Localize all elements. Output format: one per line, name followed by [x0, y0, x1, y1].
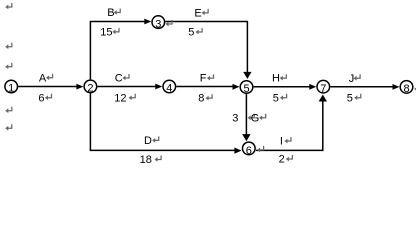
svg-text:2: 2: [279, 154, 285, 165]
wire J: node7 to node8: [330, 84, 399, 90]
svg-text:3: 3: [232, 112, 238, 124]
svg-text:6: 6: [38, 92, 44, 104]
label A: [39, 72, 53, 84]
value 5: [347, 92, 361, 104]
svg-text:F: F: [200, 73, 207, 85]
wire A: node1 to node2: [18, 84, 83, 90]
value 8: [198, 93, 212, 105]
value 6: [38, 92, 51, 104]
svg-text:I: I: [280, 135, 283, 147]
svg-text:2: 2: [87, 83, 93, 95]
node 3: [152, 16, 165, 30]
svg-text:8: 8: [403, 83, 409, 95]
label H: [272, 73, 286, 85]
label G: [251, 112, 266, 124]
wire B: node2 up and right to node3: [90, 19, 151, 80]
wire G: node5 down to node6: [242, 94, 250, 141]
label E: [194, 7, 208, 19]
value 2: [279, 154, 293, 166]
node 7: [317, 80, 330, 95]
wire I: node6 right then up to node7: [256, 95, 327, 151]
svg-text:3: 3: [155, 18, 161, 30]
svg-text:6: 6: [246, 145, 252, 157]
value 5: [273, 92, 287, 104]
svg-text:5: 5: [347, 92, 353, 104]
label B: [107, 7, 120, 19]
svg-text:E: E: [194, 7, 201, 19]
node 8: [400, 81, 413, 96]
paragraph mark row4: [5, 107, 12, 113]
wire H: node5 to node7: [254, 84, 317, 90]
wire C: node2 to node4: [98, 84, 163, 90]
svg-text:5: 5: [243, 83, 249, 95]
node 2: [84, 80, 97, 94]
paragraph mark row3: [5, 63, 12, 69]
paragraph mark row1: [5, 3, 12, 9]
node 5: [240, 81, 253, 96]
svg-text:12: 12: [114, 92, 126, 104]
paragraph mark row2: [5, 43, 12, 49]
svg-text:1: 1: [8, 83, 14, 95]
svg-text:18: 18: [140, 154, 152, 165]
svg-text:C: C: [115, 73, 123, 85]
svg-text:4: 4: [166, 83, 172, 95]
wire E: node3 right then down to node5: [165, 22, 251, 79]
svg-text:G: G: [251, 112, 260, 124]
label I: [280, 135, 291, 147]
wire D: node2 down and right to node6: [90, 93, 241, 153]
svg-text:A: A: [39, 72, 47, 84]
label F: [200, 73, 214, 85]
paragraph mark after node 8 (clipped): [414, 85, 416, 91]
svg-text:J: J: [349, 73, 355, 85]
label C: [115, 73, 129, 85]
label J: [349, 73, 360, 85]
node 6: [243, 142, 256, 157]
value 3: [232, 112, 254, 124]
svg-text:B: B: [107, 7, 114, 19]
node 4: [163, 80, 176, 94]
svg-text:5: 5: [273, 92, 279, 104]
wire F: node4 to node5: [176, 84, 239, 90]
svg-text:5: 5: [188, 27, 194, 39]
label D: [144, 135, 159, 147]
node 1: [5, 80, 18, 94]
value 5: [188, 27, 202, 39]
value 18: [140, 154, 162, 166]
value 12: [114, 92, 135, 104]
paragraph mark row5: [5, 124, 12, 130]
paragraph mark after node 6: [257, 146, 264, 152]
value 15: [100, 26, 119, 38]
svg-text:H: H: [272, 73, 280, 85]
svg-text:D: D: [144, 135, 152, 147]
paragraph mark after node 3: [165, 20, 172, 26]
svg-text:15: 15: [100, 26, 112, 38]
svg-text:8: 8: [198, 93, 204, 105]
svg-text:7: 7: [320, 83, 326, 95]
